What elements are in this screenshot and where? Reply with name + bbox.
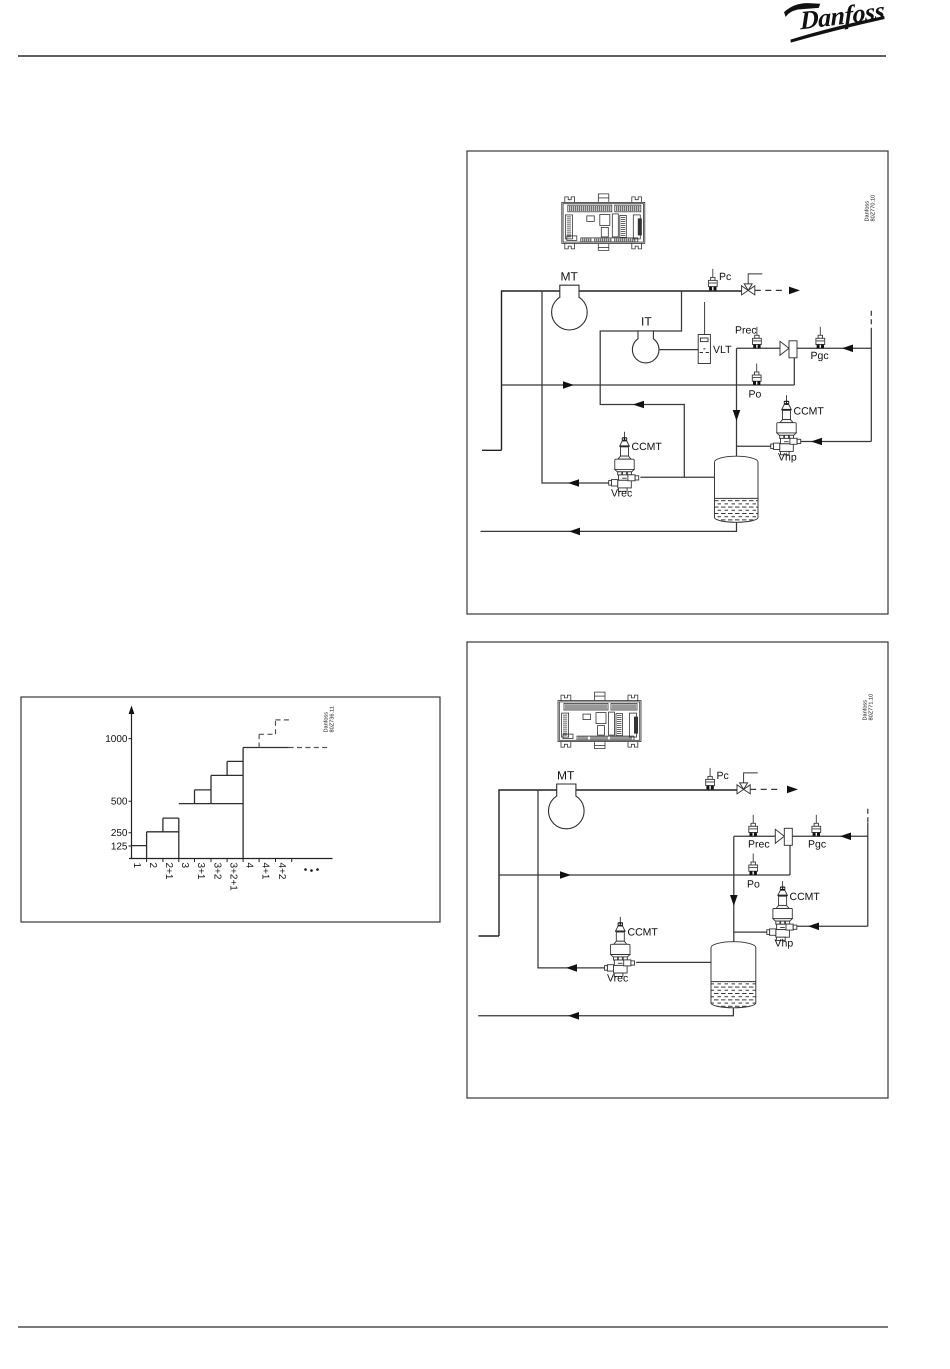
svg-text:Po: Po <box>747 879 760 891</box>
check valve <box>780 341 797 358</box>
svg-text:3+2+1: 3+2+1 <box>228 863 239 892</box>
svg-text:Pc: Pc <box>717 770 729 782</box>
svg-text:Danfoss: Danfoss <box>323 712 330 733</box>
arrow on Vhp inlet (lower) <box>808 923 819 931</box>
chart drawing number 80Z736.11 <box>323 706 336 732</box>
svg-text:80Z736.11: 80Z736.11 <box>330 706 336 732</box>
wire: Vhp outlet to drop line <box>737 445 772 447</box>
svg-text:Vrec: Vrec <box>611 488 632 500</box>
wire: open suction stub left (lower) <box>479 935 500 937</box>
svg-text:CCMT: CCMT <box>794 406 825 418</box>
wire: IT to VLT <box>659 349 698 351</box>
check valve (lower) <box>775 828 792 845</box>
wire: open suction stub left <box>482 449 502 451</box>
wire: high pressure drop line <box>736 348 738 456</box>
valve Vhp lower (CCMT) <box>767 881 797 941</box>
drawing number label 80Z771.10 <box>862 694 875 721</box>
discharge control valve (lower) <box>737 773 758 794</box>
receiver R2 <box>711 942 756 1008</box>
svg-text:IT: IT <box>641 314 652 328</box>
wire: Vrec inlet from receiver (lower) <box>636 961 711 963</box>
svg-text:1000: 1000 <box>105 734 128 745</box>
step curve solid <box>132 748 289 859</box>
valve Vrec lower (CCMT) <box>605 917 635 977</box>
wire: line from gas cooler with Pgc (lower) <box>792 835 868 837</box>
controller U2 (pack controller) <box>558 692 641 749</box>
svg-text:80Z770.10: 80Z770.10 <box>871 195 877 222</box>
pressure transmitter Pgc <box>816 327 825 349</box>
wire: bypass riser to Vrec outlet (lower) <box>538 790 607 968</box>
wire: check valve drop to suction <box>793 358 795 385</box>
svg-text:Danfoss: Danfoss <box>864 201 871 222</box>
svg-text:Pgc: Pgc <box>808 839 826 851</box>
svg-text:Pc: Pc <box>719 271 731 283</box>
compressor MT <box>552 285 588 330</box>
arrow toward check valve (lower) <box>840 833 851 841</box>
valve Vrec (CCMT) <box>609 432 639 492</box>
svg-text:500: 500 <box>111 797 128 808</box>
pressure transmitter Po <box>752 364 761 386</box>
svg-text:80Z771.10: 80Z771.10 <box>869 694 875 721</box>
svg-text:Pgc: Pgc <box>811 350 829 362</box>
valve Vhp (CCMT) <box>771 395 801 455</box>
svg-text:MT: MT <box>557 768 575 782</box>
wire: bypass riser to Vrec outlet <box>542 291 610 483</box>
svg-text:VLT: VLT <box>713 344 732 356</box>
y ticks <box>129 739 132 846</box>
arrow down on drop line (lower) <box>730 895 738 906</box>
svg-text:4+2: 4+2 <box>276 863 287 880</box>
wire: gas-cooler line to check valve (lower) <box>734 835 776 837</box>
wire: receiver bottom outlet <box>481 522 737 531</box>
x ticks <box>147 859 292 863</box>
wire: line from gas cooler with Pgc <box>797 347 871 349</box>
VLT drive <box>698 302 710 364</box>
svg-text:Prec: Prec <box>735 325 757 337</box>
wire: Vrec inlet from receiver <box>640 476 714 478</box>
wire: high pressure drop line (lower) <box>733 836 735 942</box>
ellipsis dots <box>304 868 319 872</box>
svg-text:CCMT: CCMT <box>790 891 821 903</box>
wire: discharge line from MT (lower) <box>499 790 737 936</box>
arrow on Vrec outlet (lower) <box>566 964 577 972</box>
svg-text:3: 3 <box>179 863 190 869</box>
pressure transmitter Po (lower) <box>749 854 758 876</box>
svg-text:250: 250 <box>111 828 128 839</box>
wire: suction main line (lower) <box>499 874 790 876</box>
arrow toward check valve <box>842 345 853 353</box>
compressor IT <box>632 331 659 363</box>
Danfoss logo <box>783 0 888 43</box>
wire: right riser dashed stub (lower) <box>867 809 869 823</box>
svg-text:Vhp: Vhp <box>778 452 797 464</box>
svg-text:Vhp: Vhp <box>775 938 794 950</box>
wire: suction main line <box>502 384 795 386</box>
wire: dashed discharge continuation <box>755 289 782 291</box>
wire: check valve drop to suction (lower) <box>789 845 791 875</box>
wire: Vhp inlet line (lower) <box>797 925 868 927</box>
svg-text:MT: MT <box>561 269 579 283</box>
pressure transmitter Pc (lower) <box>706 768 715 790</box>
arrow on Vhp inlet <box>811 438 822 446</box>
arrow on suction main <box>563 381 574 389</box>
wire: Vhp inlet line <box>801 441 872 443</box>
svg-text:3+1: 3+1 <box>195 863 206 880</box>
arrow down on drop line <box>733 410 741 421</box>
arrow on bottom outlet <box>569 528 580 536</box>
wire: IT suction loop <box>600 331 684 477</box>
svg-text:2+1: 2+1 <box>163 863 174 880</box>
pressure transmitter Prec (lower) <box>749 815 758 837</box>
wire: dashed discharge continuation (lower) <box>750 788 780 790</box>
svg-text:CCMT: CCMT <box>628 927 659 939</box>
arrow on suction main (lower) <box>560 871 571 879</box>
svg-text:Vrec: Vrec <box>607 973 628 985</box>
y axis <box>131 709 133 859</box>
svg-text:CCMT: CCMT <box>632 441 663 453</box>
svg-text:125: 125 <box>111 841 128 852</box>
svg-text:3+2: 3+2 <box>212 863 223 880</box>
x labels <box>131 863 287 892</box>
x axis <box>129 858 333 860</box>
wire: discharge line from MT <box>502 291 742 450</box>
wire: right riser (dashed stub) <box>870 311 872 332</box>
bottom rule <box>18 1326 888 1328</box>
pressure transmitter Prec <box>753 327 762 349</box>
svg-text:Prec: Prec <box>748 839 770 851</box>
pressure transmitter Pc <box>708 269 717 291</box>
arrow on Vrec outlet line <box>568 479 579 487</box>
controller U1 (pack controller) <box>562 194 645 251</box>
wire: receiver bottom outlet (lower) <box>478 1008 733 1016</box>
y labels <box>105 734 128 852</box>
svg-text:4+1: 4+1 <box>260 863 271 880</box>
pressure transmitter Pgc (lower) <box>812 815 821 837</box>
wire: gas-cooler line to check valve <box>737 347 781 349</box>
top rule <box>18 55 886 57</box>
svg-text:Danfoss: Danfoss <box>862 700 869 721</box>
svg-text:1: 1 <box>131 863 142 869</box>
discharge control valve <box>742 274 763 295</box>
arrow on bottom outlet (lower) <box>568 1012 579 1020</box>
arrow on IT suction <box>633 401 644 409</box>
drawing number label 80Z770.10 <box>864 195 877 222</box>
compressor MT (lower) <box>549 784 585 829</box>
svg-text:2: 2 <box>147 863 158 869</box>
svg-text:4: 4 <box>244 863 255 869</box>
wire: IT discharge riser <box>653 291 681 331</box>
receiver R1 <box>715 456 759 522</box>
wire: Vhp outlet to drop line (lower) <box>734 931 769 933</box>
step curve dashed projection <box>259 720 327 748</box>
svg-text:Po: Po <box>749 389 762 401</box>
